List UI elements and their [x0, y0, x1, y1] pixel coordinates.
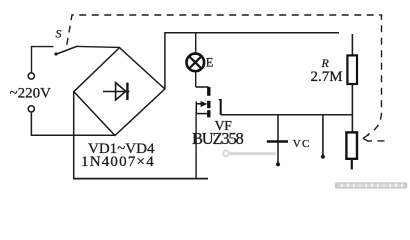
drain lead [196, 86, 209, 88]
body arrow [196, 103, 203, 105]
label 2.7M [311, 69, 343, 85]
svg-text:E: E [206, 56, 214, 70]
svg-text:~220V: ~220V [10, 86, 52, 102]
label VC [293, 138, 311, 150]
label 1N4007×4 [81, 154, 155, 170]
MOSFET VF (BUZ358) [196, 87, 222, 117]
wire R bottom to gate rail to RG [351, 84, 353, 132]
svg-text:S: S [56, 26, 62, 40]
wire bottom AC lead [31, 112, 115, 135]
wire bottom rail [73, 178, 208, 180]
wire RG bottom lead [351, 159, 353, 170]
wire MOSFET source to bottom rail [195, 114, 197, 179]
channel middle segment [207, 101, 210, 108]
label VD1~VD4 [88, 141, 155, 157]
switch S pivot dot [54, 52, 57, 55]
wire switch to bridge top [77, 46, 120, 47]
capacitor C lead end dot [276, 162, 280, 166]
svg-text:BUZ358: BUZ358 [192, 129, 244, 148]
faded artifact stroke [223, 151, 276, 157]
wire lamp drop from top rail [195, 33, 197, 54]
wire top AC lead [32, 47, 54, 73]
node stub end dot [321, 155, 325, 159]
channel bottom segment [207, 110, 210, 117]
watermark bar bottom right [335, 182, 407, 188]
label VF [215, 119, 233, 134]
wire gate rail [221, 114, 353, 116]
terminal AC bottom [28, 106, 34, 112]
wire resistor R top lead [351, 34, 353, 55]
wire lamp to MOSFET drain [195, 71, 197, 87]
resistor R [347, 55, 357, 84]
control dashed line from switch to photoresistor [67, 15, 385, 141]
bridge rectifier VD1~VD4 diamond [74, 48, 165, 136]
label BUZ358 [192, 129, 244, 148]
svg-text:VC: VC [293, 138, 311, 150]
svg-text:R: R [321, 56, 330, 70]
label S [56, 26, 62, 40]
label E [206, 56, 214, 70]
wire bridge right vertex up [164, 33, 166, 89]
source inner vertical [195, 102, 197, 114]
terminal AC top [28, 73, 34, 79]
svg-text:1N4007×4: 1N4007×4 [81, 154, 155, 170]
channel top segment [207, 87, 210, 96]
wire top rail [164, 32, 339, 34]
capacitor C lead [277, 115, 279, 164]
photoresistor RG [346, 132, 357, 158]
source lead [196, 113, 208, 115]
diode symbol inside bridge [103, 83, 130, 100]
node stub below gate rail [322, 115, 324, 156]
lamp E [187, 54, 205, 72]
svg-text:2.7M: 2.7M [311, 69, 343, 85]
wire bridge left vertex down [73, 92, 75, 179]
label R [321, 56, 330, 70]
gate bar [220, 99, 222, 115]
capacitor C plate [267, 140, 288, 142]
label ~220V [10, 86, 52, 102]
control dashed line arrowhead [363, 134, 369, 141]
switch S blade [56, 46, 77, 54]
